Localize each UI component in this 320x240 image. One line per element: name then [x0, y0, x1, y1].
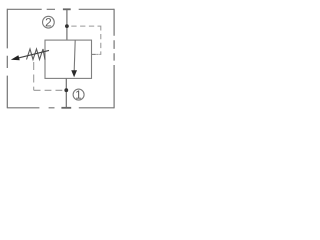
- port label 1 circle: [73, 89, 84, 100]
- pilot line left vertical dashed: [33, 62, 35, 90]
- pilot line bottom dashed: [34, 89, 66, 91]
- node junction dot top: [65, 24, 69, 28]
- spring: [27, 49, 46, 60]
- port 2 tick: [63, 8, 71, 10]
- node junction dot bottom: [64, 88, 68, 92]
- port 1 tick: [61, 107, 71, 109]
- pilot stub: [92, 53, 96, 55]
- wire port 1 line: [65, 78, 67, 107]
- port label 2 circle: [43, 16, 55, 28]
- valve envelope: [45, 40, 92, 78]
- flow arrow shaft: [74, 40, 75, 71]
- adjust arrow head: [11, 55, 20, 60]
- wire port 2 line: [66, 10, 68, 40]
- flow arrow head: [71, 70, 77, 77]
- pilot line top dashed: [71, 26, 101, 55]
- boundary bottom dashes: [7, 107, 114, 109]
- boundary top dashes: [7, 8, 114, 10]
- boundary left dashes: [6, 9, 8, 109]
- boundary right dashes: [113, 9, 115, 109]
- adjust arrow shaft: [18, 50, 50, 58]
